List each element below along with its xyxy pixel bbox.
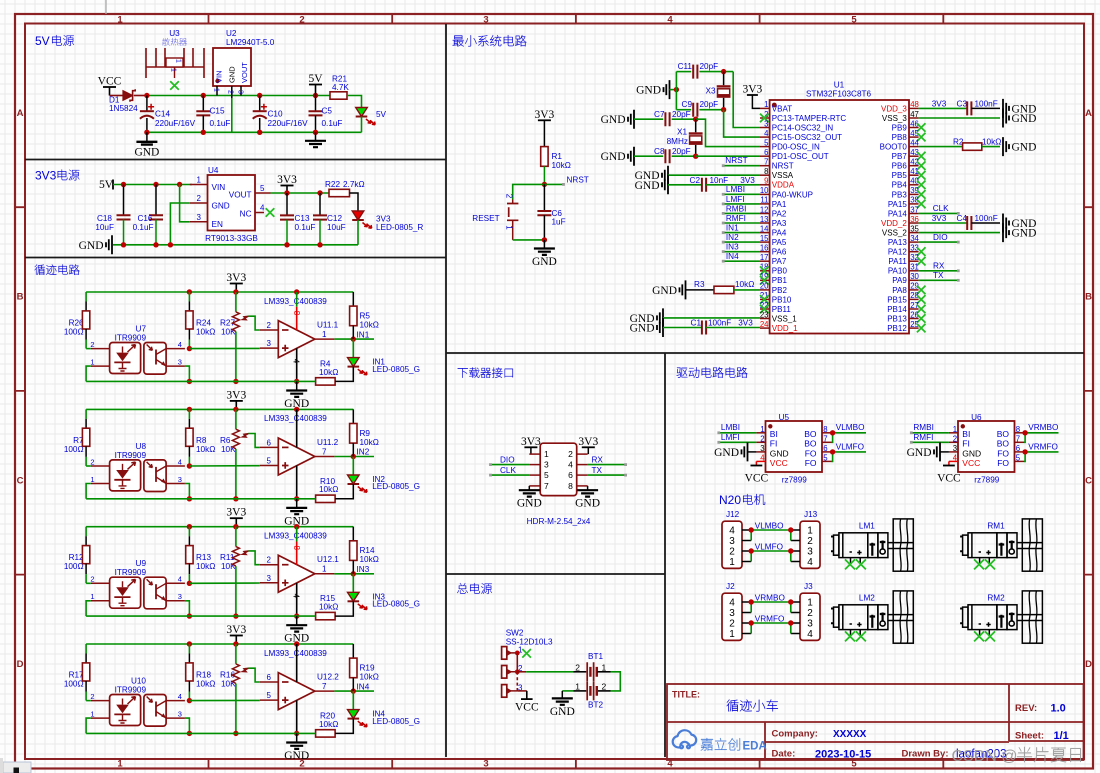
svg-text:2: 2: [807, 608, 813, 619]
svg-text:44: 44: [910, 138, 919, 147]
junction: [294, 613, 299, 618]
svg-text:VRMBO: VRMBO: [1028, 423, 1058, 432]
svg-text:VDD_2: VDD_2: [881, 219, 907, 228]
J12 pin lead: [742, 540, 751, 542]
svg-text:U4: U4: [208, 166, 219, 175]
svg-text:C3: C3: [957, 99, 968, 108]
junction: [351, 336, 356, 341]
svg-text:3: 3: [197, 213, 202, 222]
svg-text:PA6: PA6: [772, 248, 787, 257]
wire LED to resistor: [335, 601, 353, 616]
junction: [749, 599, 754, 604]
svg-text:10kΩ: 10kΩ: [319, 485, 338, 494]
junction: [721, 107, 726, 112]
wire noninverting input: [189, 699, 259, 701]
junction: [233, 613, 238, 618]
junction: [201, 130, 206, 135]
svg-text:LM393_C400839: LM393_C400839: [264, 649, 327, 658]
wire pin tie right: [790, 530, 792, 541]
svg-text:BT1: BT1: [588, 652, 603, 661]
junction: [294, 407, 299, 412]
svg-text:IN4: IN4: [357, 682, 370, 691]
wire pin tie left: [750, 530, 752, 541]
junction: [144, 130, 149, 135]
wire noninverting input: [189, 582, 259, 584]
junction: [257, 93, 262, 98]
svg-text:VDDA: VDDA: [772, 181, 795, 190]
svg-text:5: 5: [764, 138, 769, 147]
junction: [187, 463, 192, 468]
svg-text:10uF: 10uF: [327, 223, 346, 232]
ground flag GND under C14: [146, 132, 148, 141]
junction: [187, 496, 192, 501]
svg-text:4: 4: [260, 204, 265, 213]
U1 pin 13 PA3: [760, 222, 770, 224]
J13 pin lead: [791, 550, 800, 552]
svg-text:10kΩ: 10kΩ: [552, 161, 571, 170]
U1 pin 1 VBAT: [760, 107, 770, 109]
svg-text:C2: C2: [690, 176, 701, 185]
svg-text:7: 7: [823, 434, 827, 443]
svg-text:PA9: PA9: [892, 276, 907, 285]
diode D1 1N5824: [123, 91, 133, 101]
section title 驱动电路电路: [677, 367, 748, 378]
svg-text:2: 2: [953, 434, 957, 443]
svg-text:VIN: VIN: [215, 70, 224, 83]
svg-text:C: C: [17, 475, 24, 486]
svg-text:U7: U7: [136, 325, 147, 334]
svg-text:6: 6: [764, 148, 768, 157]
svg-text:5: 5: [260, 184, 265, 193]
wire 3V3 bottom rail: [113, 244, 358, 246]
wire U6 FO outputs: [1024, 452, 1025, 462]
svg-text:1: 1: [117, 759, 123, 770]
U1 pin 4 PC15-OSC32_OUT: [760, 136, 770, 138]
wire top rail block 2: [86, 408, 353, 410]
wire opto pin1 to bottom rail: [86, 366, 91, 381]
wire 5V section bottom rail: [147, 131, 362, 133]
wire U5 BO outputs: [832, 433, 833, 443]
svg-text:4: 4: [729, 526, 735, 537]
U1 pin 26 PB13: [909, 318, 919, 320]
svg-text:TITLE:: TITLE:: [672, 690, 700, 700]
svg-text:15: 15: [760, 234, 769, 243]
comparator power pin 8: [296, 527, 298, 542]
U5 pin 3: [756, 451, 765, 453]
capacitor C12 10uF: [319, 193, 321, 215]
junction: [674, 87, 679, 92]
wire pin tie left: [750, 623, 752, 634]
U1 pin 3 PC14-OSC32_IN: [760, 127, 770, 129]
svg-text:C7: C7: [654, 110, 665, 119]
svg-text:R13: R13: [196, 553, 211, 562]
comparator input leads: [260, 681, 279, 683]
U6 pin 6: [1015, 451, 1025, 453]
svg-text:4: 4: [807, 629, 813, 640]
svg-text:1: 1: [505, 225, 514, 230]
svg-text:VRMFO: VRMFO: [755, 614, 785, 623]
SW2 contact 1: [502, 647, 507, 660]
svg-text:RMFI: RMFI: [913, 433, 933, 442]
svg-text:VDD_3: VDD_3: [881, 104, 907, 113]
J2 pin lead: [742, 622, 751, 624]
junction: [187, 731, 192, 736]
svg-text:8: 8: [292, 311, 301, 316]
junction: [542, 182, 547, 187]
svg-text:2: 2: [729, 547, 735, 558]
svg-text:GND: GND: [1012, 142, 1037, 154]
svg-text:3V3: 3V3: [521, 436, 541, 448]
U1 pin 46 PB9: [909, 127, 919, 129]
svg-text:CSDN @: CSDN @: [952, 748, 1018, 765]
U1 pin 7 NRST: [760, 165, 770, 167]
junction: [187, 289, 192, 294]
svg-text:4: 4: [729, 598, 735, 609]
svg-text:3V3: 3V3: [534, 109, 554, 121]
svg-text:100Ω: 100Ω: [64, 562, 84, 571]
svg-text:2: 2: [267, 321, 272, 330]
comparator power pin 4: [296, 348, 298, 381]
capacitor C18 10uF: [123, 185, 125, 216]
svg-text:10nF: 10nF: [710, 176, 729, 185]
svg-text:GND: GND: [134, 147, 159, 159]
svg-text:N20: N20: [719, 493, 741, 507]
svg-text:1: 1: [170, 68, 177, 72]
comparator output lead: [315, 338, 335, 340]
ground flag block: [296, 733, 298, 742]
svg-text:C16: C16: [137, 214, 152, 223]
svg-text:2: 2: [760, 434, 764, 443]
wire LED to resistor: [335, 484, 353, 499]
svg-text:3V3: 3V3: [35, 169, 57, 183]
logo JLCEDA text: [701, 738, 740, 751]
svg-text:2: 2: [267, 556, 272, 565]
wire opto pin2: [86, 700, 91, 702]
svg-text:GND: GND: [652, 285, 677, 297]
svg-text:37: 37: [910, 205, 919, 214]
svg-text:C18: C18: [97, 214, 112, 223]
svg-text:1: 1: [575, 681, 580, 691]
U1 pin 42 PB6: [909, 165, 919, 167]
U1 pin 39 PB3: [909, 193, 919, 195]
svg-text:3: 3: [760, 444, 764, 453]
capacitor C16 0.1uF: [155, 185, 157, 216]
wire opto pin2: [86, 465, 91, 467]
junction: [351, 454, 356, 459]
svg-text:1/1: 1/1: [1054, 730, 1069, 742]
svg-text:5: 5: [267, 691, 272, 700]
wire output net IN1: [334, 338, 374, 340]
LED IN1 indicator green: [352, 339, 354, 358]
U5 pin 2: [756, 441, 765, 443]
svg-text:1: 1: [90, 475, 94, 484]
U6 pin 7: [1015, 441, 1025, 443]
LED red 3V3 indicator: [352, 211, 364, 220]
junction: [177, 182, 182, 187]
svg-text:FI: FI: [770, 439, 778, 449]
junction: [749, 548, 754, 553]
svg-text:PD1-OSC_OUT: PD1-OSC_OUT: [772, 152, 829, 161]
svg-text:7: 7: [764, 158, 768, 167]
svg-text:47: 47: [910, 110, 919, 119]
U1 pin 36 VDD_2: [909, 222, 919, 224]
svg-text:A: A: [1085, 108, 1092, 119]
U6 pin 1: [949, 432, 958, 434]
svg-text:GND: GND: [517, 498, 542, 510]
wire opto pin2: [86, 582, 91, 584]
svg-text:5V: 5V: [99, 179, 114, 191]
ground flag R2: [1003, 137, 1009, 156]
svg-text:C: C: [1085, 475, 1092, 486]
svg-text:PA11: PA11: [888, 257, 907, 266]
svg-text:B: B: [17, 292, 24, 303]
junction: [187, 613, 192, 618]
U10 pin leads: [91, 700, 110, 702]
U1 pin 22 PB11: [760, 308, 770, 310]
svg-text:XXXXX: XXXXX: [833, 729, 867, 740]
svg-text:8: 8: [568, 481, 573, 491]
svg-text:BO: BO: [997, 429, 1010, 439]
junction: [187, 698, 192, 703]
svg-text:PA14: PA14: [888, 209, 908, 218]
svg-text:ITR9909: ITR9909: [115, 686, 147, 695]
ground flag C8: [628, 147, 634, 166]
junction: [542, 237, 547, 242]
svg-text:2: 2: [575, 662, 580, 672]
junction: [153, 182, 158, 187]
junction: [294, 641, 299, 646]
wire BT1 to BT2: [611, 672, 621, 691]
svg-text:30: 30: [910, 272, 919, 281]
junction: [233, 379, 238, 384]
no-connect X on U3 pin 1: [170, 81, 179, 90]
svg-text:RMBI: RMBI: [726, 204, 746, 213]
ground flag U5: [742, 442, 748, 461]
wire output net IN4: [334, 690, 374, 692]
svg-text:RX: RX: [933, 262, 945, 271]
svg-text:PB4: PB4: [892, 181, 908, 190]
svg-text:LED-0805_G: LED-0805_G: [372, 717, 420, 726]
power flag VCC U6: [948, 461, 950, 465]
svg-text:9: 9: [764, 177, 768, 186]
connector P1 HDR-M-2.54_2x4: [540, 443, 577, 495]
svg-text:BO: BO: [804, 439, 817, 449]
svg-text:J13: J13: [804, 510, 818, 519]
svg-text:LM393_C400839: LM393_C400839: [264, 297, 327, 306]
svg-text:NRST: NRST: [772, 162, 794, 171]
ground main power: [561, 691, 563, 698]
wire U2 GND down: [231, 98, 233, 132]
svg-text:5V: 5V: [376, 110, 387, 119]
svg-text:6: 6: [823, 444, 827, 453]
wire motor net: [751, 622, 791, 624]
svg-text:220uF/16V: 220uF/16V: [155, 119, 196, 128]
svg-text:LED-0805_G: LED-0805_G: [372, 600, 420, 609]
svg-text:220uF/16V: 220uF/16V: [268, 119, 309, 128]
svg-text:U8: U8: [136, 442, 147, 451]
junction: [313, 93, 318, 98]
svg-text:SW2: SW2: [506, 629, 524, 638]
junction: [515, 651, 520, 656]
svg-text:4: 4: [178, 457, 182, 466]
svg-text:rz7899: rz7899: [782, 475, 807, 484]
svg-text:3: 3: [483, 759, 488, 770]
svg-text:NRST: NRST: [567, 175, 589, 184]
svg-text:BO: BO: [997, 439, 1010, 449]
svg-text:X3: X3: [705, 87, 715, 96]
svg-text:SS-12D10L3: SS-12D10L3: [506, 638, 553, 647]
svg-text:IN2: IN2: [726, 233, 739, 242]
svg-text:3V3: 3V3: [742, 84, 762, 96]
wire pot wiper to inverting input: [249, 668, 260, 682]
svg-text:U10: U10: [131, 677, 146, 686]
svg-text:4: 4: [667, 14, 673, 25]
wire opto pin3 to bottom rail: [185, 366, 190, 381]
svg-text:PA4: PA4: [772, 229, 787, 238]
svg-text:PB15: PB15: [887, 295, 907, 304]
section title 下载器接口: [458, 367, 513, 377]
junction: [317, 242, 322, 247]
U1 pin 25 PB12: [909, 327, 919, 329]
ground flag crystal X3: [664, 80, 670, 99]
svg-text:3V3: 3V3: [738, 319, 753, 328]
U1 pin 30 PA9: [909, 279, 919, 281]
svg-text:VSS_2: VSS_2: [882, 229, 907, 238]
no-connect X SW2 pin1: [522, 649, 531, 658]
header pin 7 lead: [529, 485, 540, 487]
svg-text:4: 4: [764, 129, 769, 138]
svg-text:J12: J12: [726, 510, 740, 519]
U1 pin 17 PA7: [760, 260, 770, 262]
wire C11 left riser: [675, 72, 677, 110]
U7 pin leads: [91, 348, 110, 350]
header pin 4 lead: [577, 464, 588, 466]
U1 pin 20 PB2: [760, 289, 770, 291]
svg-text:R24: R24: [196, 319, 211, 328]
svg-text:10kΩ: 10kΩ: [360, 438, 379, 447]
U1 pin 16 PA6: [760, 251, 770, 253]
junction: [830, 430, 835, 435]
svg-text:C10: C10: [268, 110, 283, 119]
junction: [749, 620, 754, 625]
wire bottom rail: [86, 615, 316, 617]
svg-text:LMFI: LMFI: [721, 433, 740, 442]
svg-text:10: 10: [760, 186, 769, 195]
junction: [121, 242, 126, 247]
U1 pin 40 PB4: [909, 184, 919, 186]
J2 pin lead: [742, 601, 751, 603]
svg-text:LED-0805_R: LED-0805_R: [376, 223, 423, 232]
wire opto pin3 to bottom rail: [185, 484, 190, 499]
svg-text:1: 1: [175, 59, 182, 63]
svg-text:R3: R3: [694, 280, 705, 289]
svg-text:3: 3: [178, 710, 182, 719]
svg-text:IN4: IN4: [726, 252, 739, 261]
junction: [1022, 449, 1027, 454]
svg-text:VRMBO: VRMBO: [755, 593, 785, 602]
svg-text:PB1: PB1: [772, 276, 788, 285]
svg-text:8: 8: [292, 545, 301, 550]
svg-text:GND: GND: [575, 498, 600, 510]
svg-text:2: 2: [197, 194, 202, 203]
svg-text:LED-0805_G: LED-0805_G: [372, 365, 420, 374]
J2 pin lead: [742, 633, 751, 635]
svg-text:36: 36: [910, 215, 919, 224]
svg-text:R14: R14: [360, 546, 375, 555]
svg-text:2: 2: [90, 692, 94, 701]
svg-text:C5: C5: [322, 107, 333, 116]
svg-text:RT9013-33GB: RT9013-33GB: [205, 234, 258, 243]
svg-text:6: 6: [267, 438, 272, 447]
junction: [788, 527, 793, 532]
svg-text:U11.2: U11.2: [317, 438, 339, 447]
svg-text:VOUT: VOUT: [229, 191, 252, 200]
svg-text:4: 4: [292, 359, 301, 364]
svg-text:IN3: IN3: [726, 243, 739, 252]
wire EN tie to VIN: [180, 185, 190, 222]
svg-text:PA15: PA15: [888, 200, 908, 209]
svg-text:4: 4: [760, 453, 765, 462]
svg-text:LMBI: LMBI: [721, 423, 740, 432]
power flag VCC U5: [755, 461, 757, 465]
ground flag R3: [680, 280, 686, 299]
wire pin tie left: [750, 551, 752, 562]
svg-text:1: 1: [807, 526, 813, 537]
svg-text:10kΩ: 10kΩ: [319, 603, 338, 612]
junction: [187, 407, 192, 412]
junction: [830, 449, 835, 454]
U1 pin 14 PA4: [760, 232, 770, 234]
svg-text:48: 48: [910, 100, 919, 109]
wire LED to resistor: [335, 719, 353, 734]
SW2 pole wires: [516, 653, 518, 672]
wire bottom rail: [86, 498, 316, 500]
svg-text:U9: U9: [136, 559, 147, 568]
capacitor C6 1uF: [543, 184, 545, 211]
svg-text:TX: TX: [592, 466, 603, 475]
J3 pin lead: [791, 612, 800, 614]
wire opto pin1 to bottom rail: [86, 484, 91, 499]
svg-text:R1: R1: [552, 152, 563, 161]
wire to reset switch: [513, 184, 545, 199]
wire LED to bottom rail: [361, 117, 363, 133]
U1 pin 29 PA8: [909, 289, 919, 291]
svg-text:24: 24: [760, 320, 769, 329]
wire BT2 to ground: [562, 690, 573, 692]
svg-text:U1: U1: [834, 81, 845, 90]
U1 pin 12 PA2: [760, 213, 770, 215]
svg-text:1: 1: [90, 710, 94, 719]
header pin 6 lead: [577, 474, 588, 476]
U1 pin 21 PB10: [760, 298, 770, 300]
svg-text:LM2940T-5.0: LM2940T-5.0: [226, 38, 275, 47]
svg-text:GND: GND: [79, 240, 104, 252]
svg-text:VLMBO: VLMBO: [836, 423, 865, 432]
svg-text:C1: C1: [691, 319, 702, 328]
svg-text:17: 17: [760, 253, 769, 262]
wire output net IN2: [334, 456, 374, 458]
junction: [788, 599, 793, 604]
svg-text:3: 3: [953, 444, 957, 453]
U1 pin 23 VSS_1: [760, 318, 770, 320]
comparator power stubs: [296, 644, 298, 682]
svg-text:VRMFO: VRMFO: [1028, 442, 1058, 451]
U1 pin 15 PA5: [760, 241, 770, 243]
U1 pin 24 VDD_1: [760, 327, 770, 329]
junction: [693, 117, 698, 122]
wire pin tie right: [790, 623, 792, 634]
svg-text:4: 4: [953, 453, 958, 462]
